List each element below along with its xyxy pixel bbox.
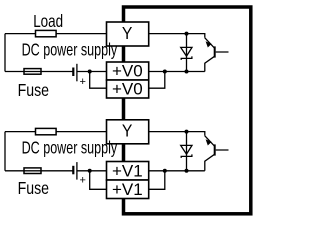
svg-text:Y: Y — [122, 23, 132, 43]
svg-text:Load: Load — [33, 12, 63, 31]
svg-text:+V0: +V0 — [112, 80, 143, 99]
svg-text:DC power supply: DC power supply — [22, 138, 118, 158]
svg-text:Y: Y — [122, 121, 132, 141]
svg-text:+V1: +V1 — [112, 180, 143, 199]
svg-text:+: + — [80, 174, 86, 186]
svg-text:Fuse: Fuse — [18, 179, 50, 199]
svg-text:+V1: +V1 — [112, 161, 143, 180]
svg-text:Fuse: Fuse — [18, 81, 50, 101]
svg-text:DC power supply: DC power supply — [22, 40, 118, 60]
svg-text:+V0: +V0 — [112, 62, 143, 81]
svg-text:+: + — [80, 76, 86, 88]
